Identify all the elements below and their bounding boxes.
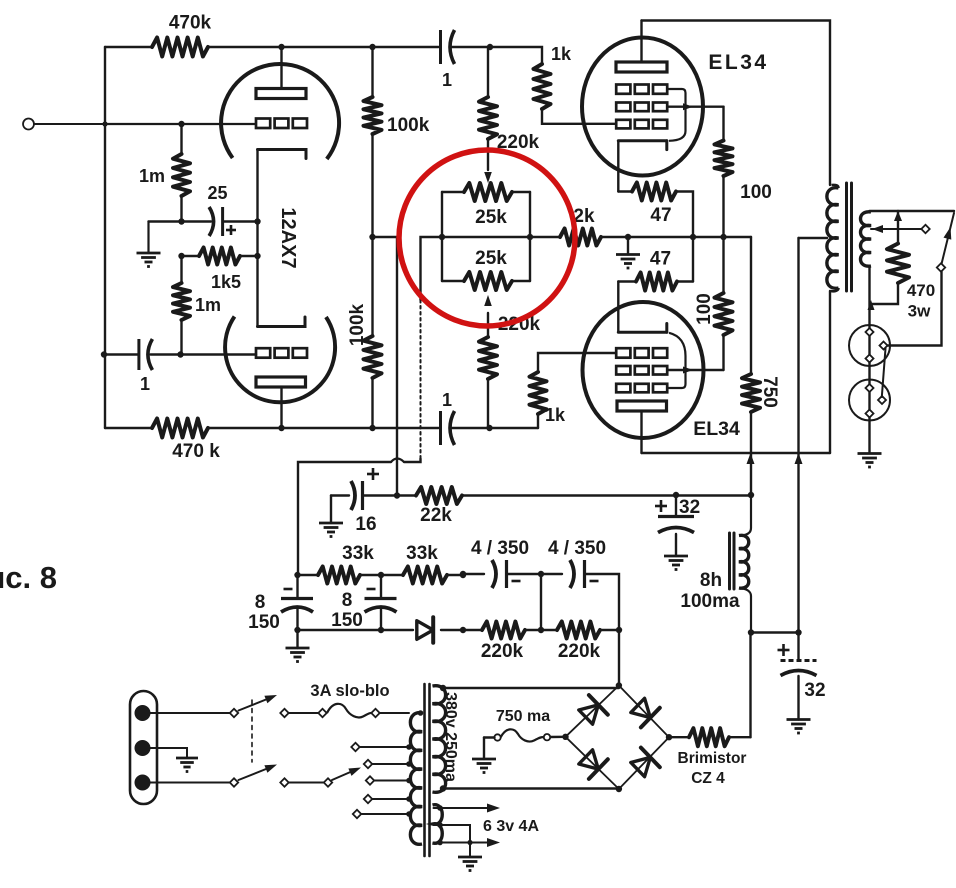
resistor 220k lower	[479, 313, 497, 428]
svg-text:1m: 1m	[139, 166, 165, 186]
wire secondary bottom	[868, 266, 870, 453]
transformer PT core	[425, 684, 430, 856]
transformer OT primary	[827, 185, 839, 291]
label 470k bottom	[172, 441, 220, 462]
wire g3 to cathode lower	[668, 333, 686, 388]
tap 780	[366, 776, 412, 784]
resistor 47 upper	[618, 183, 693, 238]
label EL34 upper	[708, 51, 768, 74]
contact sw out live	[280, 709, 288, 717]
capacitor 25 bypass	[209, 207, 223, 236]
capacitor 1 lower-left	[139, 339, 153, 370]
label 470k top	[169, 13, 212, 34]
transformer OT core	[847, 183, 852, 291]
plus 25	[226, 225, 236, 235]
ground 32 second	[787, 720, 811, 734]
wire 25k mid	[439, 234, 533, 240]
resistor 100 screen lower	[715, 237, 733, 370]
wire HV bottom	[440, 785, 619, 791]
svg-text:150: 150	[331, 610, 363, 631]
wire secondary tap2	[871, 225, 922, 233]
switch output arm	[942, 213, 955, 264]
svg-text:1k5: 1k5	[211, 272, 241, 292]
capacitor 32 first	[658, 495, 694, 556]
switch live arm	[239, 695, 278, 711]
resistor 33k second	[381, 567, 466, 584]
label 220k lower	[498, 314, 541, 335]
svg-text:16: 16	[355, 514, 376, 535]
resistor 470 3w	[868, 211, 910, 310]
wire bias feed corner	[421, 237, 443, 300]
capacitor 16	[331, 481, 397, 510]
wire neutral	[150, 782, 231, 784]
wire top rail right	[452, 44, 542, 64]
contact live	[230, 709, 238, 717]
resistor 220k bias first	[463, 622, 557, 639]
resistor 220k upper	[479, 47, 497, 170]
label 1m upper	[139, 166, 165, 186]
svg-text:150: 150	[248, 612, 280, 633]
wire earth	[150, 748, 187, 758]
wire 25 to cathode	[224, 218, 261, 224]
svg-text:25k: 25k	[475, 207, 507, 228]
label 8-150 second	[331, 590, 363, 631]
svg-text:EL34: EL34	[693, 418, 740, 440]
choke 8h winding	[739, 496, 751, 633]
transformer OT secondary	[861, 212, 872, 266]
switch neutral arm	[239, 765, 278, 781]
contact selector	[324, 778, 332, 786]
ground input stage	[137, 253, 161, 267]
label 1 top	[442, 70, 452, 90]
capacitor 8-150 second	[365, 575, 397, 630]
svg-text:3w: 3w	[908, 302, 931, 321]
label 33k first	[342, 543, 374, 564]
svg-text:25: 25	[207, 183, 227, 203]
svg-text:33k: 33k	[342, 543, 374, 564]
label 750ma	[496, 708, 550, 725]
svg-text:Brimistor: Brimistor	[678, 750, 747, 767]
svg-text:470: 470	[907, 281, 935, 300]
wire OT center tap	[799, 237, 828, 239]
wire bias to bridge	[618, 630, 620, 686]
wire cathode lower lead	[617, 282, 619, 333]
wire 1k to EL34 grid	[542, 109, 616, 124]
switch gang link	[251, 700, 253, 762]
label 1k5	[211, 272, 241, 292]
svg-text:8h: 8h	[700, 570, 722, 591]
wire bias feed bottom	[404, 459, 421, 463]
grid 12AX7 lower	[256, 348, 307, 358]
wire sw to fuse	[289, 712, 320, 714]
resistor 22k	[394, 487, 754, 504]
tap 764	[364, 760, 412, 768]
wire heater bottom	[434, 838, 501, 847]
annotation red circle	[399, 150, 575, 326]
wire sw out neutral	[289, 782, 325, 784]
label fig 8	[0, 560, 57, 595]
input terminal	[23, 119, 105, 130]
tube EL34 lower envelope	[583, 302, 704, 438]
svg-text:3A slo-blo: 3A slo-blo	[310, 682, 389, 700]
resistor 1m lower	[173, 256, 190, 355]
resistor 100k lower	[364, 234, 382, 428]
label 2k	[573, 206, 595, 227]
diode bridge upper-left	[579, 695, 608, 724]
wire common cathode	[256, 150, 258, 327]
cathode 12AX7 upper	[258, 150, 307, 159]
diode bridge lower-left	[579, 750, 608, 779]
svg-text:750: 750	[759, 376, 780, 408]
wire bias hop	[391, 459, 404, 463]
wire 100k-mid to psu	[373, 237, 398, 496]
ground bias	[286, 630, 310, 662]
tube 12AX7 envelope upper	[221, 64, 339, 159]
label 3A slo-blo	[310, 682, 389, 700]
wire bias to left	[298, 462, 391, 575]
svg-text:470k: 470k	[169, 13, 212, 34]
wire caps mid join	[538, 574, 544, 633]
resistor 1k top	[534, 64, 551, 109]
wire heater CT	[434, 822, 473, 857]
svg-text:12AX7: 12AX7	[277, 207, 299, 268]
wire switch to jack	[887, 272, 942, 346]
label 1k bottom	[545, 405, 566, 425]
svg-text:8: 8	[255, 592, 266, 613]
label 25	[207, 183, 227, 203]
svg-text:1: 1	[442, 70, 452, 90]
wire bottom rail a	[105, 427, 152, 429]
resistor 25k bottom	[464, 272, 512, 290]
capacitor 1 bottom-coupling	[441, 411, 455, 445]
contact sw out neutral	[280, 778, 288, 786]
wire mid bus	[601, 234, 751, 240]
svg-text:ис. 8: ис. 8	[0, 560, 57, 595]
ground 16	[319, 523, 343, 537]
resistor 2k	[530, 229, 601, 246]
jack socket 1	[849, 325, 890, 366]
cathode EL34 lower	[618, 324, 667, 333]
label 4-350 second	[548, 538, 606, 559]
tube 12AX7 envelope lower	[225, 317, 335, 403]
svg-text:1m: 1m	[195, 295, 221, 315]
tap 747	[351, 743, 412, 751]
resistor Brimistor CZ4	[669, 728, 751, 746]
mains connector	[130, 691, 157, 804]
wire top rail mid	[208, 44, 439, 50]
choke 8h core	[730, 533, 735, 589]
wire choke to B+	[748, 629, 802, 635]
wire live	[150, 712, 231, 714]
fuse 750ma	[494, 729, 565, 741]
resistor 25k top	[464, 183, 512, 201]
svg-text:4 / 350: 4 / 350	[548, 538, 606, 559]
transformer PT heater winding	[433, 805, 443, 844]
svg-text:1k: 1k	[551, 44, 572, 64]
label 100k lower	[347, 303, 368, 346]
label 25k bottom	[475, 248, 507, 269]
label 220k bias first	[481, 641, 524, 662]
svg-text:33k: 33k	[406, 543, 438, 564]
wire plate EL34 upper	[640, 21, 642, 63]
wire input to grid	[102, 121, 256, 127]
arrow 220k lower into 25k	[484, 295, 492, 306]
grid g1 EL34 lower	[616, 348, 667, 358]
wire g2 lower	[668, 367, 724, 374]
wire OT bottom lead	[829, 291, 831, 453]
label 100k upper	[387, 115, 430, 136]
svg-text:22k: 22k	[420, 505, 452, 526]
wire cathode bias node	[149, 218, 212, 224]
resistor 100 screen upper	[715, 107, 733, 237]
contact tap2	[921, 225, 929, 233]
resistor 750	[742, 237, 760, 495]
ground mid	[616, 255, 640, 269]
label 1m lower	[195, 295, 221, 315]
tap 799	[364, 795, 412, 803]
label 100ma	[680, 591, 740, 612]
label EL34 lower	[693, 418, 740, 440]
wire HV top	[440, 685, 619, 691]
wire top plate rail	[642, 21, 831, 186]
resistor 220k bias second	[557, 622, 622, 639]
cathode 12AX7 lower	[258, 317, 306, 327]
wire plate lower 12AX7	[280, 387, 282, 428]
minus 4-350 second	[590, 580, 599, 583]
wire bias feed dotted	[420, 300, 422, 459]
diode bridge lower-right	[631, 748, 660, 777]
svg-text:750 ma: 750 ma	[496, 708, 550, 725]
minus 4-350 first	[512, 580, 521, 583]
arrow 220k upper into 25k	[484, 172, 492, 183]
label 6.3v 4A	[483, 818, 539, 835]
capacitor 8-150 first	[281, 575, 313, 630]
label 8h	[700, 570, 722, 591]
tube EL34 upper envelope	[582, 38, 703, 176]
wire heater top	[434, 804, 501, 813]
resistor 1m upper	[173, 124, 190, 222]
resistor 1k bottom	[530, 372, 547, 428]
label 100 screen upper	[740, 182, 772, 203]
svg-text:100: 100	[740, 182, 772, 203]
svg-text:32: 32	[679, 497, 700, 518]
cathode EL34 upper	[618, 141, 667, 150]
contact output switch	[937, 263, 945, 271]
wire g2 upper	[668, 103, 724, 110]
resistor 47 lower	[618, 237, 693, 291]
switch selector arm	[332, 768, 361, 781]
wire plate EL34 lower	[640, 411, 642, 453]
contact neutral	[230, 778, 238, 786]
plate bar EL34 upper	[616, 62, 667, 72]
capacitor 1 top-coupling	[441, 30, 455, 64]
svg-text:2k: 2k	[573, 206, 595, 227]
label 33k second	[406, 543, 438, 564]
wire g3 to cathode upper	[668, 89, 686, 141]
grid 12AX7 upper	[256, 119, 307, 129]
minus 8-150 second	[367, 588, 376, 591]
svg-text:100k: 100k	[387, 115, 430, 136]
grid g2 EL34 upper	[616, 103, 667, 112]
svg-text:EL34: EL34	[708, 51, 768, 74]
fuse 3A slo-blo	[327, 704, 372, 718]
label 47 lower	[650, 249, 671, 270]
ground stub mid	[627, 237, 629, 255]
grid g3 EL34 lower	[616, 384, 667, 393]
label 750	[759, 376, 780, 408]
label Brimistor	[678, 750, 747, 787]
label 100 screen lower	[694, 293, 715, 325]
svg-text:220k: 220k	[558, 641, 601, 662]
label 470 3w	[907, 281, 935, 321]
svg-text:25k: 25k	[475, 248, 507, 269]
grid g2 EL34 lower	[616, 366, 667, 375]
wire lower grid line b	[151, 351, 257, 357]
label 8-150 first	[248, 592, 280, 633]
svg-text:4 / 350: 4 / 350	[471, 538, 529, 559]
label 32 second	[804, 680, 825, 701]
wire brimistor up	[749, 633, 751, 738]
label 12AX7	[277, 207, 299, 268]
label 32 first	[679, 497, 700, 518]
minus 8-150 first	[284, 588, 293, 591]
ground mains	[176, 758, 198, 772]
svg-text:CZ 4: CZ 4	[691, 770, 725, 787]
grid g1 EL34 upper	[616, 120, 667, 129]
diode bias	[417, 617, 433, 643]
svg-text:47: 47	[650, 249, 671, 270]
wire bottom rail c	[452, 425, 538, 431]
wire plate upper 12AX7	[280, 47, 282, 89]
label 1k top	[551, 44, 572, 64]
label 1 bottom	[442, 390, 452, 410]
svg-text:32: 32	[804, 680, 825, 701]
plus 32 second	[778, 644, 790, 656]
label 22k	[420, 505, 452, 526]
wire jack pins	[882, 349, 886, 398]
resistor 33k first	[294, 567, 384, 584]
svg-text:1: 1	[442, 390, 452, 410]
plate bar 12AX7 lower	[256, 377, 306, 387]
wire fuse to primary	[380, 712, 410, 714]
wire lower grid line	[101, 351, 138, 357]
svg-text:1k: 1k	[545, 405, 566, 425]
transformer PT primary	[410, 710, 423, 844]
ground fuse	[472, 759, 496, 773]
mains pin earth	[135, 740, 151, 756]
wire bottom rail b	[208, 425, 439, 431]
wire diode to 220k	[441, 627, 466, 633]
wire left feedback vertical	[104, 47, 106, 428]
capacitor 32 second	[781, 633, 817, 720]
svg-text:1: 1	[140, 374, 150, 394]
contact fuse left	[318, 709, 326, 717]
ground stub left	[147, 222, 149, 254]
capacitor 4-350 second	[541, 560, 619, 630]
label 47 upper	[650, 205, 671, 226]
transformer PT HV winding	[433, 686, 446, 793]
ground speaker	[858, 454, 882, 468]
plus 32 first	[655, 500, 667, 512]
label 220k bias second	[558, 641, 601, 662]
svg-text:100k: 100k	[347, 303, 368, 346]
wire fuse to ground	[484, 738, 495, 760]
svg-text:470 k: 470 k	[172, 441, 220, 462]
svg-text:47: 47	[650, 205, 671, 226]
plate bar EL34 lower	[617, 401, 667, 411]
svg-text:380v 250ma: 380v 250ma	[442, 692, 459, 782]
svg-text:6 3v 4A: 6 3v 4A	[483, 818, 539, 835]
resistor 100k upper	[364, 47, 382, 237]
resistor 470k bottom	[152, 419, 208, 438]
contact fuse right	[371, 709, 379, 717]
wire cathode upper lead	[617, 141, 619, 192]
wire secondary top	[870, 211, 955, 221]
label 4-350 first	[471, 538, 529, 559]
label 16	[355, 514, 376, 535]
svg-text:100ma: 100ma	[680, 591, 740, 612]
svg-text:8: 8	[342, 590, 353, 611]
label 1 lower-left	[140, 374, 150, 394]
plus 16	[367, 468, 379, 480]
jack socket 2	[849, 380, 890, 421]
wire top rail left	[105, 46, 152, 48]
ground stub 16	[330, 496, 332, 524]
label 220k upper	[497, 132, 540, 153]
wire bridge edges	[562, 682, 672, 792]
mains pin neutral	[135, 775, 151, 791]
svg-text:100: 100	[694, 293, 715, 325]
node 25k network box	[442, 192, 530, 281]
tap 814	[353, 810, 412, 818]
wire bias bottom rail	[294, 627, 413, 633]
capacitor 4-350 first	[460, 560, 544, 588]
plate bar 12AX7 upper	[256, 89, 306, 99]
svg-text:220k: 220k	[481, 641, 524, 662]
ground 32 first	[664, 556, 688, 570]
label 25k top	[475, 207, 507, 228]
diode bridge upper-right	[631, 698, 660, 727]
wire lower plate rail	[642, 453, 831, 464]
ground heater	[458, 857, 482, 871]
wire B+ vertical	[797, 238, 799, 633]
label 380v 250ma	[442, 692, 459, 782]
resistor 1k5	[178, 248, 260, 265]
wire 1k to lower EL34 grid	[538, 353, 616, 372]
resistor 470k top	[152, 38, 208, 57]
grid g3 EL34 upper	[616, 85, 667, 94]
mains pin live	[135, 705, 151, 721]
